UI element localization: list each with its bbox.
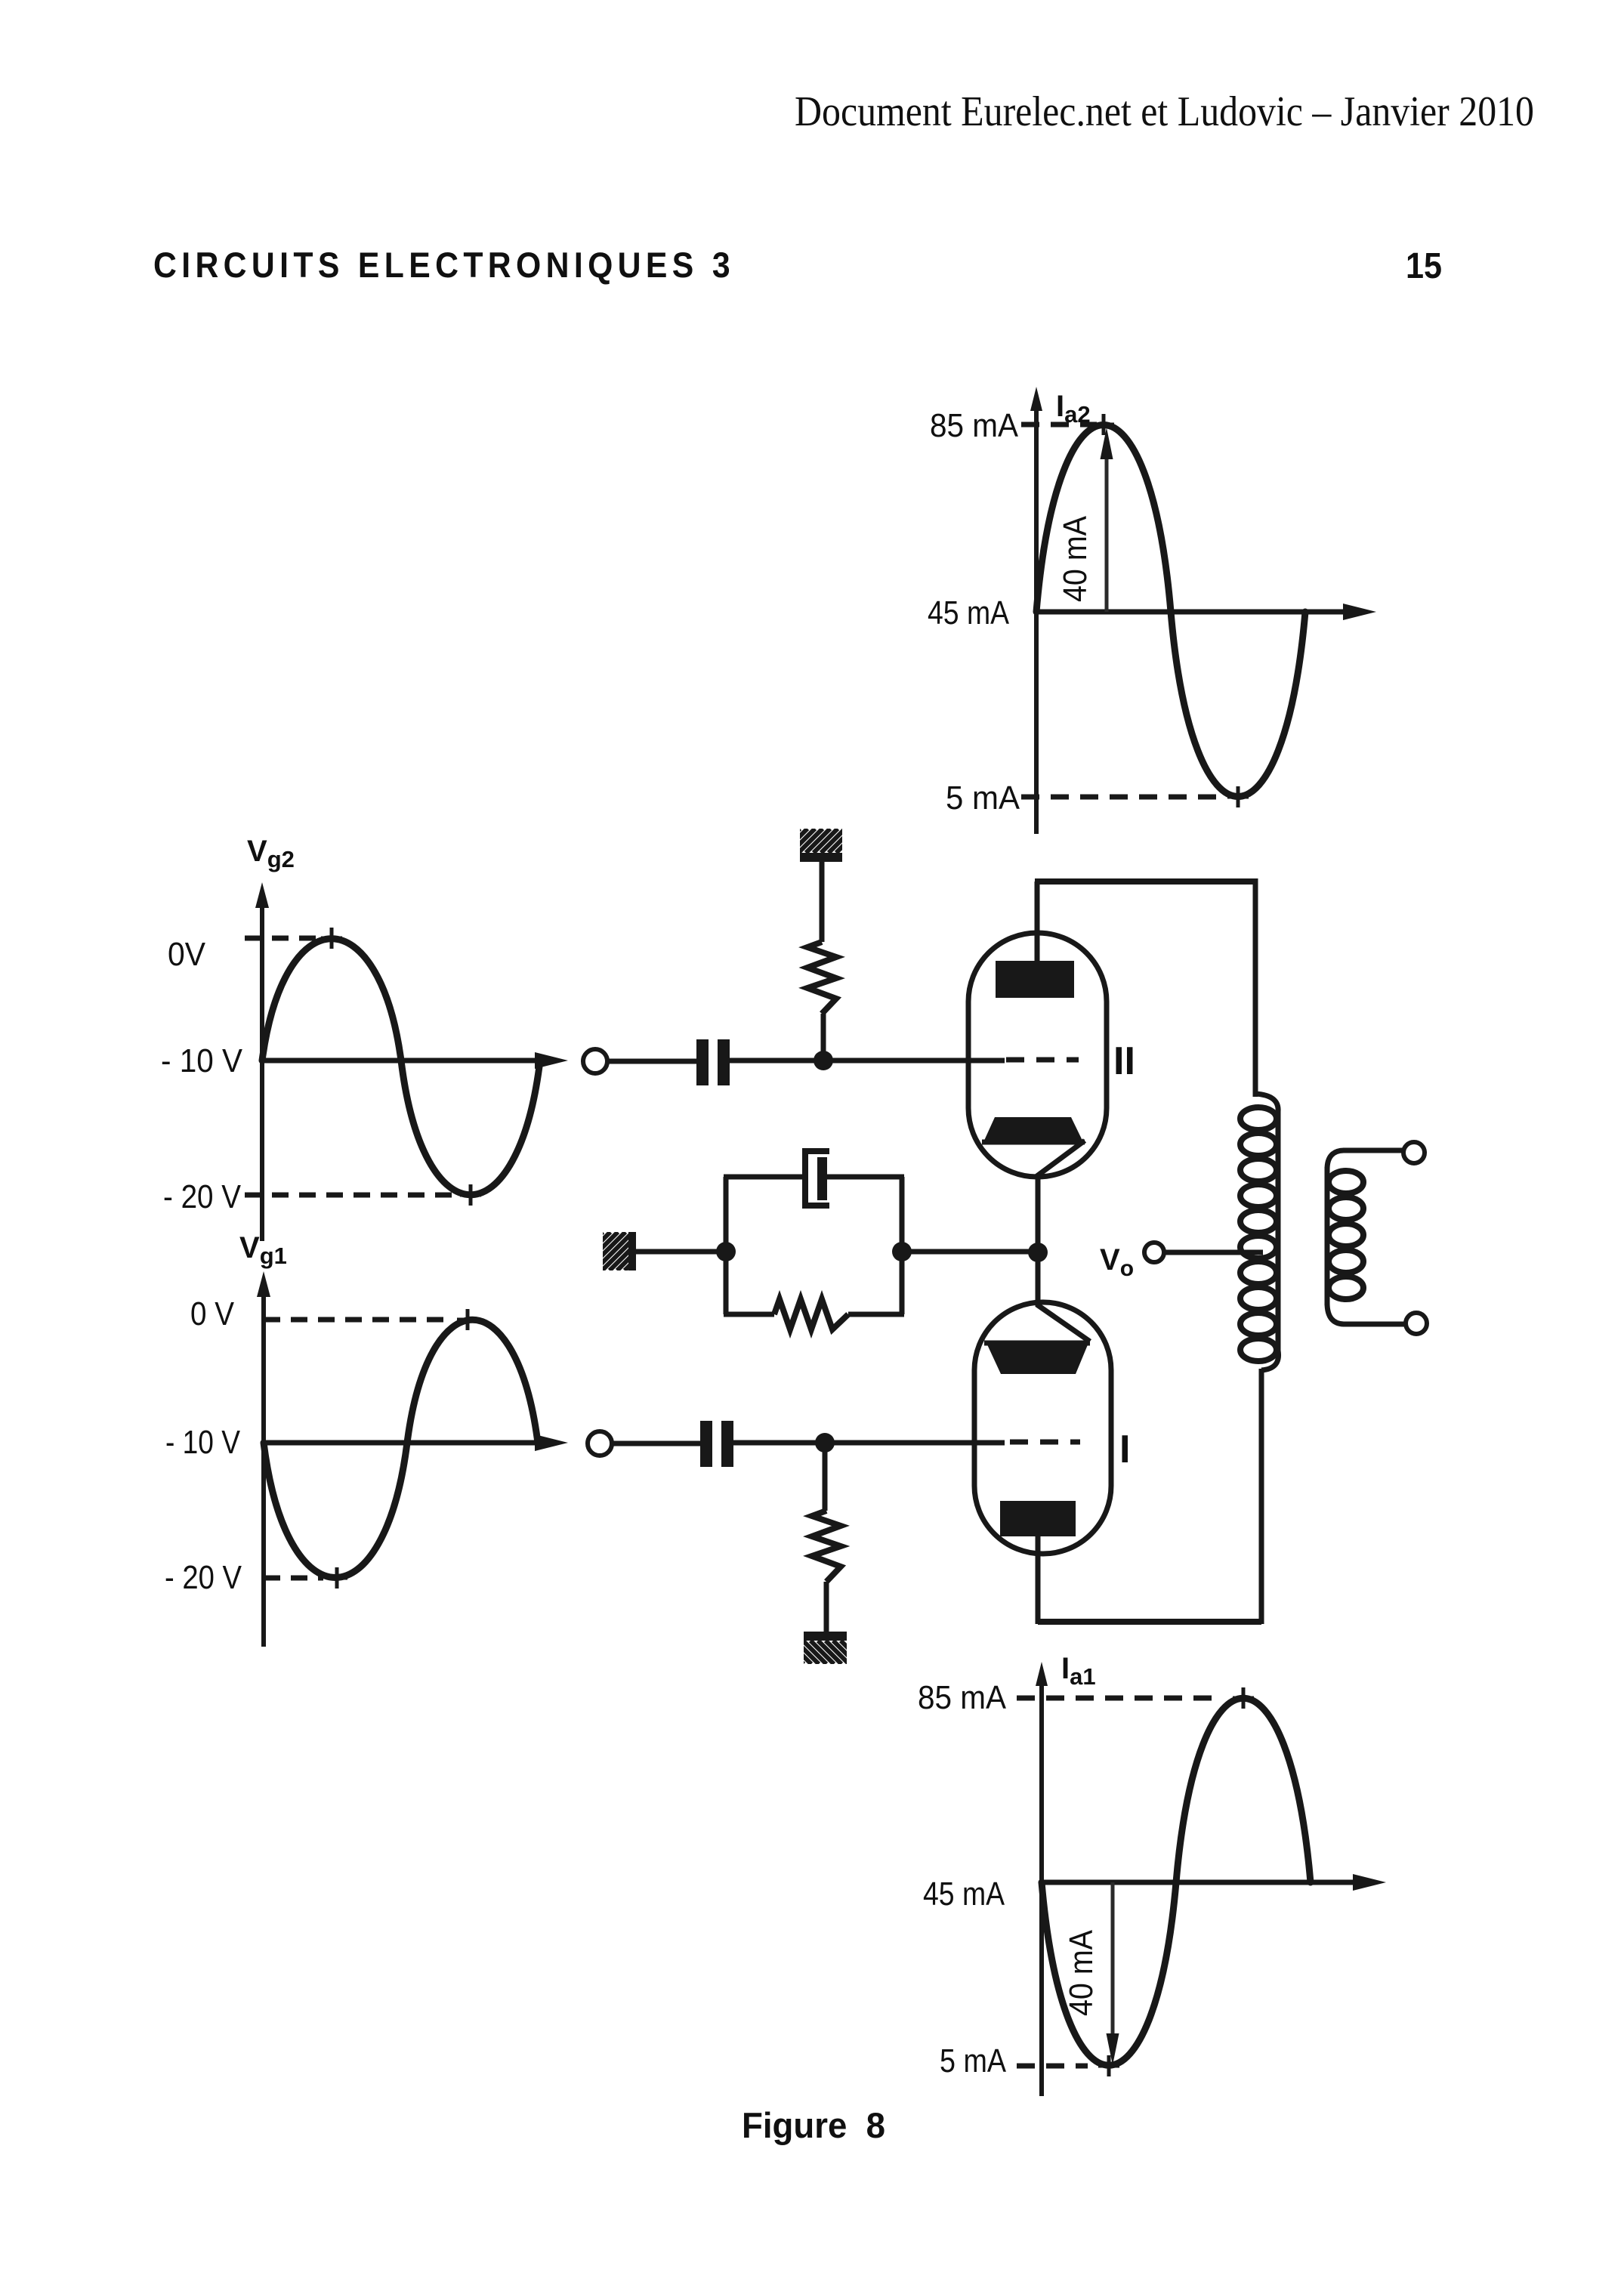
grid resistor R2 [807,942,836,1014]
graph Ia2: horizontal axis 45 mA [1036,610,1352,615]
wire secondary bottom to terminal [1343,1322,1405,1327]
graph Vg2: peak tick [321,928,342,949]
svg-text:5 mA: 5 mA [940,2042,1007,2079]
tube II anode plate [996,961,1074,998]
svg-text:Figure 8: Figure 8 [742,2105,885,2145]
svg-text:40 mA: 40 mA [1063,1929,1100,2016]
node K common cathodes [1028,1243,1048,1262]
graph Ia2: dashed 85 mA level [1021,422,1097,428]
svg-text:15: 15 [1406,246,1442,286]
tube I cathode lead [1038,1301,1090,1342]
tube II envelope [968,933,1107,1177]
transformer primary winding [1240,1094,1279,1370]
graph Vg2: dashed -20V level [245,1193,453,1198]
graph Ia2: trough tick [1227,786,1249,807]
graph Vg2: sine curve [262,939,540,1195]
tube I anode plate [1000,1501,1076,1536]
input terminal Vg1 [588,1431,612,1456]
svg-text:I: I [1119,1428,1130,1471]
transformer secondary winding [1327,1150,1363,1324]
graph Vg1: vertical axis [261,1283,266,1647]
graph Ia1: 40 mA measure arrow [1111,1882,1115,2039]
wire input Vg1 to coupling capacitor [612,1441,700,1446]
RC top wire right [825,1175,904,1180]
tube II cathode lead [1038,1141,1085,1180]
graph Vg1: trough tick [326,1567,347,1589]
wire secondary top to terminal [1343,1148,1403,1153]
svg-text:- 10 V: - 10 V [165,1424,241,1461]
transformer primary bottom lead [1259,1369,1264,1624]
RC bottom wire left [724,1312,774,1317]
svg-text:5 mA: 5 mA [946,780,1020,817]
svg-text:45 mA: 45 mA [928,594,1010,631]
RC network frame right [900,1177,905,1314]
wire tube II cathode to tube I cathode [1036,1177,1041,1304]
wire resistor R1 to ground [824,1582,829,1633]
graph Ia1: trough tick [1098,2055,1119,2076]
graph Vg2: trough tick [460,1184,481,1206]
svg-text:85 mA: 85 mA [930,407,1019,444]
svg-text:Vo: Vo [1100,1243,1134,1281]
graph Vg1: dashed -20V level [264,1576,323,1581]
coupling capacitor C1 [700,1421,733,1467]
grid resistor R1 [812,1511,841,1582]
ground bottom (R1) [773,1632,887,1664]
RC network frame left [724,1177,729,1314]
input terminal Vg2 [583,1049,607,1073]
graph Ia2: peak tick [1093,414,1114,435]
graph Vg2: vertical axis [260,894,264,1241]
graph Vg1: peak tick [457,1309,478,1330]
wire capacitor to grid of tube II [730,1058,1005,1064]
coupling capacitor C2 [696,1039,730,1085]
wire resistor R2 to ground [820,862,825,942]
bypass capacitor Ck [805,1151,829,1206]
tube I anode wire [1036,1536,1041,1624]
svg-text:45 mA: 45 mA [923,1876,1005,1913]
svg-text:- 20 V: - 20 V [163,1178,242,1215]
graph Ia1: vertical axis [1039,1674,1044,2096]
graph Vg1: horizontal axis -10 V [264,1440,542,1446]
wire input Vg2 to coupling capacitor [607,1059,696,1064]
ground middle left [557,1232,701,1270]
graph Ia2: dashed 5 mA level [1021,795,1227,800]
secondary bottom terminal [1406,1313,1427,1334]
wire anode I to transformer bottom [1038,1619,1261,1625]
graph Ia2: sine curve [1036,425,1305,797]
wire capacitor to grid of tube I [733,1440,1005,1446]
transformer primary top lead [1253,878,1258,1097]
wire node K to RC network [902,1249,1038,1255]
graph Ia2: vertical axis [1034,399,1039,834]
tube I cathode [984,1343,1090,1374]
tube II anode wire [1035,881,1040,961]
ground top (R2) [768,829,883,862]
svg-text:0V: 0V [168,936,206,973]
graph Vg2: horizontal axis -10 V [262,1058,542,1064]
tube I grid dashed [1010,1440,1080,1445]
cathode resistor Rk [774,1299,848,1329]
svg-text:- 20 V: - 20 V [165,1559,242,1596]
graph Ia1: horizontal axis 45 mA [1042,1880,1360,1885]
graph Vg2: dashed 0V level [245,936,317,941]
node RC left [716,1242,736,1261]
node grid I junction [815,1433,835,1453]
secondary top terminal [1403,1142,1425,1163]
svg-text:II: II [1113,1039,1135,1083]
svg-text:Document Eurelec.net et Ludovi: Document Eurelec.net et Ludovic – Janvie… [795,88,1534,135]
wire ground to RC network [636,1249,726,1255]
graph Ia1: dashed 5 mA level [1017,2064,1088,2069]
wire junction to grid resistor R2 [821,1014,826,1061]
node RC right [892,1242,912,1261]
RC bottom wire right [848,1312,904,1317]
svg-text:40 mA: 40 mA [1057,515,1094,602]
graph Vg1: dashed 0V level [264,1317,453,1323]
graph Vg1: sine curve [264,1320,538,1577]
svg-text:Ia1: Ia1 [1061,1652,1096,1690]
node grid II junction [814,1051,833,1070]
svg-text:Vg2: Vg2 [247,835,295,872]
wire junction to grid resistor R1 [823,1443,828,1511]
graph Ia1: dashed 85 mA level [1017,1696,1220,1701]
svg-text:- 10 V: - 10 V [161,1042,243,1079]
wire anode II to transformer top [1035,878,1255,885]
tube II cathode [982,1117,1085,1142]
wire Vo to transformer centre tap [1164,1250,1263,1255]
RC top wire left [724,1175,804,1180]
svg-text:0 V: 0 V [190,1295,235,1332]
svg-text:85 mA: 85 mA [918,1679,1007,1716]
tube II grid dashed [1006,1057,1079,1063]
graph Ia1: peak tick [1233,1687,1254,1709]
output terminal Vo [1144,1243,1164,1262]
graph Ia1: sine curve [1042,1698,1311,2065]
tube I envelope [974,1302,1111,1554]
graph Ia2: 40 mA measure arrow [1105,453,1109,612]
svg-text:CIRCUITS ELECTRONIQUES 3: CIRCUITS ELECTRONIQUES 3 [153,245,735,285]
